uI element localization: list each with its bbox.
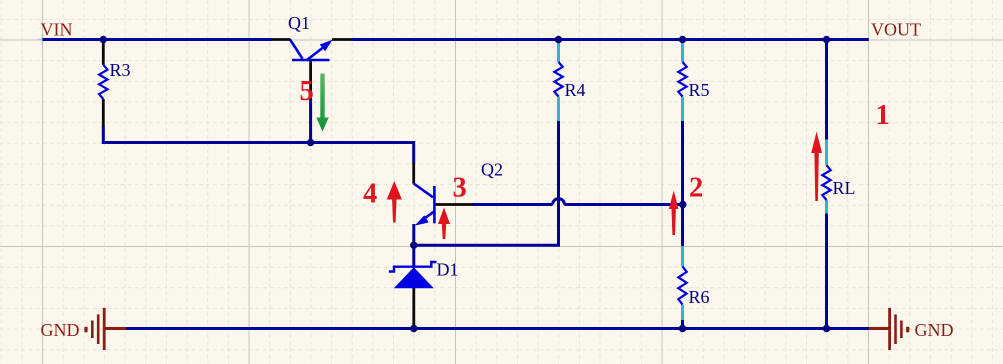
junction node Q2 base / R5-R6: [679, 201, 686, 208]
R6 pin 2 (cyan): [681, 305, 684, 321]
Q1 base pin: [309, 61, 312, 100]
wire R5 to junction and down to R6: [681, 121, 684, 247]
wire Q2 base run right of hop: [564, 203, 682, 206]
svg-text:VOUT: VOUT: [871, 20, 921, 40]
svg-text:5: 5: [300, 76, 314, 107]
wire Q1 base down: [309, 99, 312, 143]
R5 pin 2 (cyan): [681, 97, 684, 122]
wire top rail VOUT segment: [353, 38, 869, 41]
resistor RL: [822, 165, 830, 200]
D1 anode pin (black): [412, 288, 415, 329]
junction node Q2 emitter / D1 / R4: [410, 242, 417, 249]
R4 pin 1 (cyan): [557, 41, 560, 62]
transistor Q1: [290, 40, 330, 61]
R3 pin 2 (black): [102, 99, 105, 126]
R4 pin 2 (cyan): [557, 97, 560, 122]
wire top rail VIN segment: [43, 40, 870, 329]
annotation arrow 2 (current into R6 node, up): [669, 191, 679, 236]
wire RL bottom to ground rail: [825, 213, 828, 329]
junction node RL / GND rail: [823, 325, 830, 332]
wire ground rail: [126, 327, 870, 330]
RL pin 2 (cyan): [825, 200, 828, 214]
svg-text:VIN: VIN: [41, 20, 73, 40]
R5 pin 1 (cyan): [681, 41, 684, 62]
wire R4 bottom to emitter node: [414, 121, 559, 246]
wire R3 bottom to Q2 collector (mid horizontal): [103, 126, 413, 164]
Q2 collector pin: [412, 163, 415, 184]
svg-text:R4: R4: [565, 80, 586, 100]
svg-text:R5: R5: [689, 80, 710, 100]
wire R6 bottom to ground rail: [681, 320, 684, 329]
svg-text:2: 2: [689, 173, 703, 204]
wire VOUT down to RL: [825, 40, 828, 141]
ground right: [869, 308, 908, 350]
svg-text:Q1: Q1: [288, 13, 310, 33]
svg-text:R3: R3: [110, 60, 131, 80]
junction node D1 / GND rail: [410, 325, 417, 332]
resistor R3: [99, 65, 107, 99]
junction node R6 / GND rail: [679, 325, 686, 332]
svg-text:4: 4: [363, 179, 377, 210]
svg-text:3: 3: [453, 173, 467, 204]
wire Q2 base run left of hop: [472, 203, 553, 206]
junction node VIN/R3: [100, 36, 107, 43]
annotation arrow 1 (current through RL, up): [811, 132, 822, 202]
R3 pin 1 (black): [102, 41, 105, 65]
resistor R6: [678, 267, 686, 305]
wire node to D1: [412, 245, 415, 266]
svg-text:1: 1: [876, 100, 890, 131]
annotation arrow 3 (Q2 base current, up): [438, 208, 450, 240]
svg-text:GND: GND: [915, 320, 954, 340]
wire hop over R4 line: [553, 199, 565, 205]
junction node R4 top: [555, 36, 562, 43]
svg-text:Q2: Q2: [481, 160, 503, 180]
Q2 base pin: [436, 203, 473, 206]
svg-text:D1: D1: [437, 260, 459, 280]
junction node Q1 base / mid wire: [307, 139, 314, 146]
transistor Q2: [414, 184, 435, 224]
resistor R5: [678, 62, 686, 97]
annotation arrow 4 (Q2 collector current, up): [387, 181, 402, 223]
wire Q2 emitter down to node: [412, 224, 415, 246]
ground left: [86, 308, 126, 350]
node VIN wire origin cross: [38, 35, 48, 45]
svg-text:RL: RL: [833, 178, 856, 198]
resistor R4: [554, 62, 562, 97]
R6 pin 1 (cyan): [681, 246, 684, 267]
RL pin 1 (cyan): [825, 140, 828, 166]
zener diode D1: [389, 262, 437, 272]
svg-text:R6: R6: [689, 287, 710, 307]
Q1 emitter pin: [332, 38, 353, 41]
Q1 collector pin: [272, 38, 291, 41]
svg-text:GND: GND: [41, 320, 80, 340]
junction node VOUT/RL: [823, 36, 830, 43]
junction node R5 top: [679, 36, 686, 43]
